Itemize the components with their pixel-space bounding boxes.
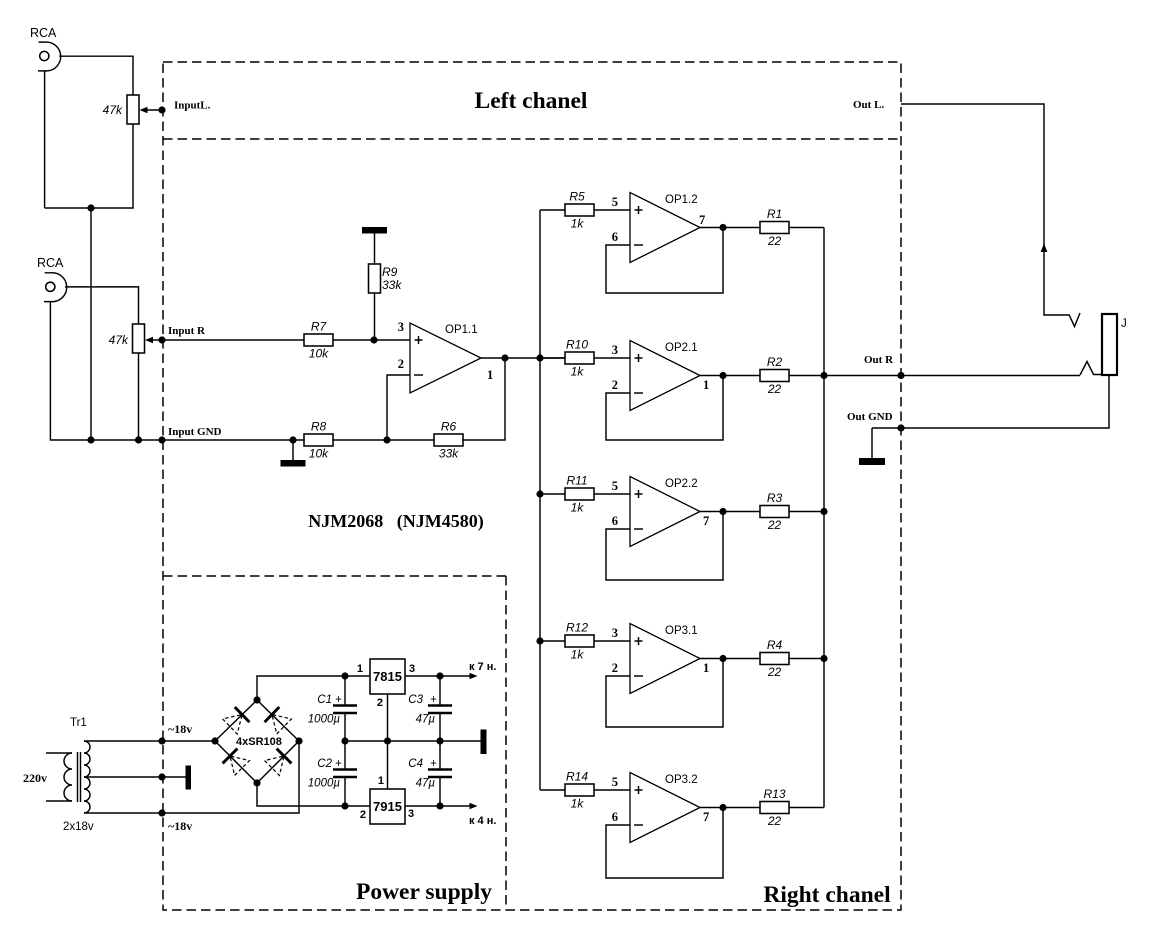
wire RCA1 pin to pot1 top xyxy=(59,56,133,95)
resistor R8 xyxy=(304,420,333,461)
node bridge vertices xyxy=(211,737,218,744)
capacitor C1 xyxy=(308,676,357,741)
wire R13 to right bus xyxy=(789,807,824,809)
svg-text:3: 3 xyxy=(398,320,404,334)
op-amp OP2.2 xyxy=(612,477,710,547)
node OP3.2 output junction xyxy=(719,804,726,811)
ground (power mid rail) xyxy=(481,730,487,755)
resistor R4 xyxy=(760,638,789,679)
wire R2 to right bus xyxy=(789,375,824,377)
node OP2.1 output junction xyxy=(719,372,726,379)
svg-text:R8: R8 xyxy=(311,420,327,434)
svg-text:2: 2 xyxy=(360,809,366,821)
svg-text:R11: R11 xyxy=(566,474,587,488)
svg-text:OP1.1: OP1.1 xyxy=(445,324,478,336)
svg-text:22: 22 xyxy=(767,665,782,679)
ground (below R8 rail) xyxy=(281,440,306,467)
bridge rectifier 4xSR108 xyxy=(215,700,299,783)
wire R3 to right bus xyxy=(789,511,824,513)
svg-text:4xSR108: 4xSR108 xyxy=(236,736,282,748)
svg-text:1k: 1k xyxy=(571,648,585,662)
resistor R13 xyxy=(760,787,789,828)
capacitor C3 xyxy=(408,676,452,741)
svg-text:Out GND: Out GND xyxy=(847,411,893,423)
resistor R5 xyxy=(565,190,594,231)
svg-text:1: 1 xyxy=(703,378,709,392)
op-amp OP2.1 xyxy=(612,341,710,411)
wire Out R to jack ring contact xyxy=(824,375,1080,377)
node R9/R7 junction xyxy=(370,336,377,343)
wire middle ground rail xyxy=(345,740,481,742)
wire 7915 output xyxy=(405,805,440,807)
node OP1.2 output junction xyxy=(719,224,726,231)
resistor R3 xyxy=(760,491,789,532)
svg-text:47k: 47k xyxy=(103,103,123,117)
wire bus to R11 xyxy=(540,493,565,495)
wire bus to R14 xyxy=(540,789,565,791)
svg-text:2: 2 xyxy=(377,697,383,709)
wire R6 to output riser xyxy=(463,358,505,440)
wire bus to R10 xyxy=(540,357,565,359)
svg-text:R14: R14 xyxy=(566,770,588,784)
svg-text:1: 1 xyxy=(378,775,384,787)
svg-text:R4: R4 xyxy=(767,638,783,652)
svg-text:Left chanel: Left chanel xyxy=(475,88,588,114)
op-amp OP1.2 xyxy=(612,193,706,263)
svg-text:5: 5 xyxy=(612,775,618,789)
wire/arrow to pin 4 xyxy=(440,803,496,827)
svg-text:~18v: ~18v xyxy=(168,819,192,833)
svg-text:1k: 1k xyxy=(571,501,585,515)
wire OP2.2 output xyxy=(700,511,760,513)
Power supply box right border xyxy=(505,576,507,910)
resistor R6 xyxy=(434,420,463,461)
svg-text:Tr1: Tr1 xyxy=(70,717,87,729)
wire OP3.1 output xyxy=(700,658,760,660)
svg-text:1: 1 xyxy=(703,661,709,675)
svg-text:R6: R6 xyxy=(441,420,457,434)
wire 7815 pin2 to 7915 pin1 xyxy=(387,694,389,789)
svg-text:22: 22 xyxy=(767,382,782,396)
node bus junction xyxy=(536,354,543,361)
svg-text:R10: R10 xyxy=(566,338,588,352)
svg-text:Out R: Out R xyxy=(864,354,894,366)
ground (transformer center tap) xyxy=(186,766,192,790)
resistor R9 xyxy=(369,264,403,293)
svg-text:+: + xyxy=(335,758,342,770)
svg-text:47µ: 47µ xyxy=(416,714,436,726)
connector RCA 1 (left input) xyxy=(30,26,61,71)
Left chanel box bottom divider xyxy=(163,138,901,140)
svg-text:Input GND: Input GND xyxy=(168,426,222,438)
svg-text:2: 2 xyxy=(612,378,618,392)
svg-text:C4: C4 xyxy=(408,758,423,770)
diode D1 (bridge) xyxy=(223,707,250,734)
svg-text:C3: C3 xyxy=(408,694,423,706)
svg-text:1: 1 xyxy=(357,663,363,675)
wire bus to R12 xyxy=(540,640,565,642)
node dots on GND rail xyxy=(87,436,94,443)
svg-text:RCA: RCA xyxy=(30,26,57,40)
wiper arrow pot1 xyxy=(140,106,166,113)
svg-text:InputL.: InputL. xyxy=(174,100,211,112)
node OP3.1 output junction xyxy=(719,655,726,662)
wire bus to R5 xyxy=(540,209,565,211)
contact V (right channel, jack ring) xyxy=(1080,362,1101,376)
resistor R11 xyxy=(565,474,594,515)
resistor R10 xyxy=(565,338,594,379)
op-amp OP1.1 xyxy=(398,320,494,393)
svg-text:C1: C1 xyxy=(317,694,332,706)
svg-text:7: 7 xyxy=(703,514,709,528)
outer dashed border (Right chanel box) xyxy=(163,62,901,910)
wire R11 to OP2.2 + input xyxy=(594,493,630,495)
svg-text:R2: R2 xyxy=(767,355,783,369)
svg-text:22: 22 xyxy=(767,234,782,248)
svg-text:47k: 47k xyxy=(109,333,129,347)
svg-text:1k: 1k xyxy=(571,217,585,231)
svg-text:10k: 10k xyxy=(309,447,329,461)
wire R14 to OP3.2 + input xyxy=(594,789,630,791)
wire OP1.2 feedback loop xyxy=(606,228,723,294)
svg-text:NJM2068 (NJM4580): NJM2068 (NJM4580) xyxy=(308,511,483,532)
svg-text:3: 3 xyxy=(408,808,414,820)
wiper arrow pot2 xyxy=(145,336,166,343)
svg-text:OP3.1: OP3.1 xyxy=(665,625,698,637)
svg-text:5: 5 xyxy=(612,479,618,493)
svg-text:6: 6 xyxy=(612,810,618,824)
op-amp OP3.1 xyxy=(612,624,710,694)
svg-text:R3: R3 xyxy=(767,491,783,505)
wire R8 to R6 xyxy=(333,439,434,441)
svg-text:Input R: Input R xyxy=(168,325,206,337)
potentiometer 47k (right) xyxy=(109,324,145,353)
svg-text:R1: R1 xyxy=(767,207,782,221)
svg-text:+: + xyxy=(335,694,342,706)
svg-text:33k: 33k xyxy=(382,278,402,292)
svg-text:OP3.2: OP3.2 xyxy=(665,774,698,786)
wire bridge + output to 7815 xyxy=(257,676,370,700)
wire RCA1 shield down xyxy=(44,71,46,208)
svg-text:+: + xyxy=(430,694,437,706)
svg-text:1k: 1k xyxy=(571,365,585,379)
wire right output bus xyxy=(823,228,825,808)
diode D2 (bridge) xyxy=(265,707,292,734)
resistor R12 xyxy=(565,621,594,662)
wire OP1.1 output to bus xyxy=(481,357,565,359)
svg-text:C2: C2 xyxy=(317,758,332,770)
wire OP1.1 - input feedback stub xyxy=(387,375,410,440)
svg-text:+: + xyxy=(430,758,437,770)
svg-text:7: 7 xyxy=(703,810,709,824)
svg-text:3: 3 xyxy=(612,343,618,357)
wire R1 to right bus xyxy=(789,227,824,229)
svg-text:7915: 7915 xyxy=(373,799,402,814)
svg-text:RCA: RCA xyxy=(37,256,64,270)
wire pot1 bottom to shield junction xyxy=(45,124,133,208)
diode D4 (bridge) xyxy=(265,749,292,776)
node OP2.2 output junction xyxy=(719,508,726,515)
svg-text:6: 6 xyxy=(612,230,618,244)
connector RCA 2 (right input) xyxy=(37,256,67,302)
node junction at (91,208) xyxy=(87,204,94,211)
ground (output) xyxy=(859,428,885,465)
Power supply box top border xyxy=(163,575,506,577)
svg-text:1000µ: 1000µ xyxy=(308,778,341,790)
svg-text:10k: 10k xyxy=(309,347,329,361)
wire 7815 output xyxy=(405,675,440,677)
wire Out GND to jack sleeve xyxy=(872,376,1109,428)
svg-text:R5: R5 xyxy=(569,190,585,204)
svg-text:47µ: 47µ xyxy=(416,778,436,790)
svg-text:2: 2 xyxy=(612,661,618,675)
svg-text:R9: R9 xyxy=(382,265,398,279)
svg-text:22: 22 xyxy=(767,814,782,828)
svg-text:1000µ: 1000µ xyxy=(308,714,341,726)
svg-text:Out L.: Out L. xyxy=(853,99,884,111)
wire center tap to ground xyxy=(84,776,186,778)
ground (above R9) xyxy=(362,227,387,264)
node output/feedback junction xyxy=(501,354,508,361)
contact V (left channel, jack tip) xyxy=(1069,313,1080,327)
wire Input R to R7 xyxy=(162,339,304,341)
svg-text:5: 5 xyxy=(612,195,618,209)
wire pot2 bottom to GND rail xyxy=(138,353,140,440)
resistor R1 xyxy=(760,207,789,248)
wire secondary bottom tap to bridge right vertex xyxy=(84,741,299,813)
svg-text:Right chanel: Right chanel xyxy=(763,882,891,908)
svg-text:7: 7 xyxy=(699,213,705,227)
resistor R2 xyxy=(760,355,789,396)
svg-text:к 4 н.: к 4 н. xyxy=(469,815,496,827)
resistor R7 xyxy=(304,320,333,361)
svg-text:Power supply: Power supply xyxy=(356,879,492,905)
node ground tap on GND rail xyxy=(289,436,296,443)
svg-text:R12: R12 xyxy=(566,621,588,635)
svg-text:OP2.2: OP2.2 xyxy=(665,478,698,490)
svg-text:~18v: ~18v xyxy=(168,722,192,736)
resistor R14 xyxy=(565,770,594,811)
svg-text:22: 22 xyxy=(767,518,782,532)
wire Out L to jack tip contact xyxy=(901,104,1069,315)
wire OP3.1 feedback loop xyxy=(606,659,723,728)
op-amp OP3.2 xyxy=(612,773,710,843)
wire R4 to right bus xyxy=(789,658,824,660)
wire RCA2 shield to GND rail xyxy=(50,302,304,440)
wire R12 to OP3.1 + input xyxy=(594,640,630,642)
wire OP2.1 feedback loop xyxy=(606,376,723,441)
wire R10 to OP2.1 + input xyxy=(594,357,630,359)
svg-text:J: J xyxy=(1121,318,1127,330)
wire OP3.2 output xyxy=(700,807,760,809)
svg-text:33k: 33k xyxy=(439,447,459,461)
svg-text:R13: R13 xyxy=(763,787,785,801)
capacitor C2 xyxy=(308,741,357,806)
connector J (headphone jack) xyxy=(1102,314,1127,375)
wire R7 to OP1.1 + input xyxy=(333,339,410,341)
svg-text:OP1.2: OP1.2 xyxy=(665,194,698,206)
node feedback junction xyxy=(383,436,390,443)
svg-text:2: 2 xyxy=(398,357,404,371)
wire RCA2 pin to pot2 top xyxy=(65,287,139,324)
wire OP3.2 feedback loop xyxy=(606,808,723,879)
wire R5 to OP1.2 + input xyxy=(594,209,630,211)
transformer Tr1 xyxy=(23,717,94,833)
wire/arrow to pin 7 xyxy=(440,661,496,679)
svg-text:220v: 220v xyxy=(23,771,47,785)
potentiometer 47k (left) xyxy=(103,95,139,124)
wire junction down to GND rail xyxy=(90,208,92,440)
svg-text:1k: 1k xyxy=(571,797,585,811)
svg-text:к 7 н.: к 7 н. xyxy=(469,661,496,673)
diode D3 (bridge) xyxy=(223,749,250,776)
svg-text:R7: R7 xyxy=(311,320,328,334)
wire secondary top tap to bridge xyxy=(84,740,215,742)
wire OP2.2 feedback loop xyxy=(606,512,723,581)
svg-text:7815: 7815 xyxy=(373,669,402,684)
wire OP1.2 output xyxy=(700,227,760,229)
wire left distribution bus xyxy=(539,210,541,790)
wire R9 bottom to junction xyxy=(374,293,376,340)
svg-text:OP2.1: OP2.1 xyxy=(665,342,698,354)
wire OP2.1 output xyxy=(700,375,760,377)
svg-text:1: 1 xyxy=(487,368,493,382)
svg-text:2x18v: 2x18v xyxy=(63,821,94,833)
svg-text:6: 6 xyxy=(612,514,618,528)
regulator U1 7815 xyxy=(357,659,415,709)
capacitor C4 xyxy=(408,741,452,806)
arrow marker on Out L wire xyxy=(1041,244,1048,253)
svg-text:3: 3 xyxy=(409,663,415,675)
wire bridge - output to 7915 xyxy=(257,783,370,806)
svg-text:3: 3 xyxy=(612,626,618,640)
regulator U2 7915 xyxy=(360,775,414,824)
